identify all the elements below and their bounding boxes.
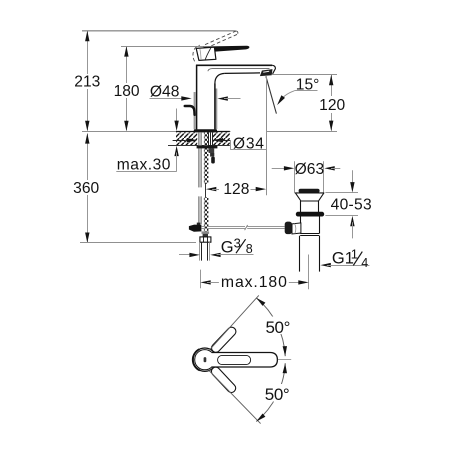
svg-text:Ø63: Ø63 (295, 161, 324, 178)
spout underside (225, 72, 260, 75)
counter top line (82, 131, 231, 133)
dimension 213 (74, 31, 100, 131)
mounting washer under counter (197, 145, 218, 148)
svg-text:40-53: 40-53 (331, 196, 372, 213)
svg-text:4: 4 (361, 256, 368, 270)
faucet base flange on counter (194, 129, 217, 132)
pop-up plug cap (299, 189, 320, 193)
pop-up rod knob (hook behind body) (185, 106, 195, 115)
darker left rim (193, 349, 200, 370)
reference line top (lever raised height 213) (82, 30, 236, 32)
svg-text:Ø34: Ø34 (233, 135, 265, 152)
dimension max.180 (200, 255, 308, 292)
diagonal extension lines (210, 295, 259, 349)
arc arrowheads (256, 298, 265, 306)
lever handle (rest position) (204, 46, 250, 52)
dimension 120 (272, 75, 346, 132)
svg-text:50°: 50° (266, 318, 291, 337)
rotated lever outline up 50 (210, 325, 238, 354)
svg-text:G: G (221, 239, 234, 257)
counter bottom line (168, 145, 230, 147)
svg-text:360: 360 (73, 180, 99, 197)
rotated lever outline down 50 (210, 365, 238, 394)
drain flange (295, 193, 324, 201)
svg-text:128: 128 (223, 181, 249, 198)
connection hose tails (200, 242, 210, 260)
body gray shadow bands (194, 92, 196, 129)
dashed raised lever (193, 31, 238, 61)
inner corner fillet (215, 73, 225, 83)
threaded shank rod (upper part) (204, 132, 209, 183)
hose through hole (upper part) (199, 132, 202, 187)
svg-text:50°: 50° (265, 385, 290, 404)
pop-up rod tube in hole (209, 132, 213, 148)
body top / spout top (196, 64, 272, 66)
center tick (204, 357, 207, 362)
spout outlet vertical extension line (266, 76, 268, 195)
svg-text:180: 180 (114, 83, 140, 100)
hose-end reference line (360 bottom) (80, 242, 196, 244)
G3/8 connector stack (202, 231, 210, 234)
counter cross-section hatch left (176, 132, 197, 145)
swing arcs 50 deg (256, 298, 285, 356)
body left edge (196, 65, 198, 130)
rod guide bracket blocks (209, 148, 215, 153)
step ring (300, 233, 319, 235)
spout tip corner and end face (272, 65, 275, 74)
dimension 40-53 (325, 170, 372, 238)
knob cone (292, 223, 301, 234)
svg-text:8: 8 (246, 242, 253, 256)
faucet body and spout outline (196, 65, 275, 130)
svg-text:Ø48: Ø48 (150, 83, 179, 100)
label Ø48 (150, 83, 241, 100)
handle base / cartridge housing (196, 47, 216, 60)
dimension 360 (73, 133, 196, 243)
tailpiece (299, 236, 301, 272)
svg-text:120: 120 (319, 97, 345, 114)
counter cross-section hatch right (213, 132, 230, 145)
horizontal pop-up rod to drain (201, 226, 284, 228)
spout front upper thin line (208, 69, 270, 72)
dimension 128 (206, 181, 266, 198)
svg-text:max.180: max.180 (221, 274, 288, 291)
svg-text:max.30: max.30 (117, 156, 171, 173)
label 15 degrees with leader (277, 76, 319, 105)
svg-text:213: 213 (74, 74, 100, 91)
faucet body circle outer (193, 348, 216, 371)
dimension Ø63 (272, 161, 341, 193)
label G1 1/4 (320, 247, 369, 271)
lever (rest) top view (212, 353, 277, 368)
drain body upper (300, 201, 302, 212)
hose (lower part) (199, 196, 202, 224)
label G3/8 (179, 235, 254, 257)
centerline right (278, 359, 291, 361)
dimension 180 (114, 46, 140, 131)
drain body lower (300, 217, 302, 234)
white boxes under 50 deg texts (263, 317, 296, 335)
body right edge (214, 84, 216, 130)
spray angle line 15 deg (266, 76, 277, 113)
dimension Ø34 (hole) (173, 131, 267, 153)
rod knob on drain (285, 222, 292, 235)
aerator (260, 69, 273, 76)
threaded shank rod (lower part) (204, 197, 209, 233)
faucet body circle inner (195, 350, 215, 370)
pop-up rod clamp (197, 223, 201, 226)
rubber gasket (296, 212, 324, 217)
reference line lever rest height 180 (121, 46, 204, 48)
counter edge over hatch (176, 131, 230, 133)
pop-up rod through tube break (205, 184, 207, 198)
dimension max.30 (116, 109, 179, 174)
